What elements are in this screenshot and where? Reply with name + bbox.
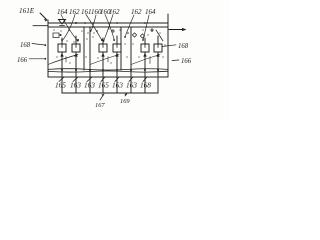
leader from 162c (125, 15, 134, 37)
cell Q6 (154, 44, 162, 52)
small diamond node A (132, 33, 136, 37)
divider drop wire x131 (130, 77, 132, 93)
output arrow wire (169, 29, 185, 31)
svg-text:163: 163 (126, 80, 137, 89)
drain wire Q4 (116, 52, 118, 93)
tick mark mid cell (107, 57, 109, 63)
bottom bus wire (62, 92, 158, 94)
gate stub Q2 (75, 36, 77, 44)
divider wire x125 (120, 27, 122, 70)
gate stub Q1 (61, 38, 63, 44)
gate stub Q3 (102, 38, 104, 44)
left edge extension (47, 20, 49, 27)
cell link wire right (131, 55, 160, 65)
cell Q5 (141, 44, 149, 52)
small circle node B (151, 29, 153, 31)
sense box (53, 33, 59, 38)
svg-text:168: 168 (178, 43, 189, 50)
source arrowheads (60, 53, 63, 57)
svg-text:161E: 161E (19, 7, 35, 15)
svg-text:163: 163 (70, 80, 81, 89)
junction dots (61, 22, 159, 71)
drain wire Q5 (144, 52, 146, 93)
leader from 164b (143, 15, 149, 40)
svg-text:164: 164 (57, 8, 68, 16)
leader from 160b (105, 15, 115, 41)
svg-text:168: 168 (20, 42, 31, 49)
svg-text:162: 162 (69, 8, 80, 16)
divider wire x90 (89, 27, 91, 77)
svg-text:164: 164 (145, 8, 156, 16)
gate stub Q4 (116, 36, 118, 44)
stray diagonal mark (156, 30, 163, 41)
svg-text:163: 163 (84, 80, 95, 89)
right label 166 (172, 59, 179, 62)
svg-text:165: 165 (55, 80, 66, 89)
divider wire x131 (130, 27, 132, 77)
cell link wire left (48, 55, 78, 65)
internal bus wire (48, 69, 168, 70)
svg-text:169: 169 (120, 98, 130, 105)
cell link wire mid (90, 55, 119, 65)
cell Q3 (99, 44, 107, 52)
top rail wire (48, 22, 168, 24)
drain wire Q6 (157, 52, 159, 93)
main box (48, 27, 168, 77)
divider drop wire x90 (89, 77, 91, 93)
drain wire Q2 (75, 52, 77, 93)
svg-text:167: 167 (95, 102, 105, 109)
leader from 161 (86, 15, 102, 41)
divider wire x84 (83, 27, 85, 70)
leader to top rail (40, 13, 47, 20)
tick mark left cell (65, 57, 67, 63)
small diamond node B (140, 34, 144, 38)
leader from 160a (91, 15, 96, 31)
leader from 164 (61, 15, 78, 42)
left input wire (33, 25, 48, 27)
internal bus wire lower (48, 71, 168, 72)
svg-text:163: 163 (112, 80, 123, 89)
svg-text:166: 166 (181, 58, 192, 65)
cell Q2 (72, 44, 80, 52)
tick mark right cell (149, 57, 151, 63)
gate stub Q6 (157, 36, 159, 44)
svg-text:166: 166 (17, 57, 28, 64)
drain wire Q1 (61, 52, 63, 93)
small circle node A (112, 30, 114, 32)
svg-text:168: 168 (140, 80, 151, 89)
cell Q4 (113, 44, 121, 52)
svg-text:161: 161 (81, 8, 92, 16)
ground symbol (59, 20, 66, 25)
cell Q1 (58, 44, 66, 52)
svg-text:165: 165 (98, 80, 109, 89)
right label 168 (162, 45, 176, 47)
gate stub Q5 (144, 38, 146, 44)
leader from 162b (104, 15, 114, 42)
svg-text:162: 162 (109, 8, 120, 16)
drain wire Q3 (102, 52, 104, 93)
ink specks (53, 28, 165, 78)
right edge extension (167, 14, 169, 27)
svg-text:162: 162 (131, 8, 142, 16)
leader from 162a (62, 15, 75, 42)
